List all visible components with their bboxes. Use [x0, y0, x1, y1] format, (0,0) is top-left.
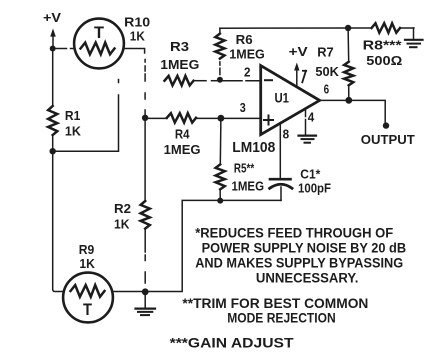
wire R7 top lead from node H [347, 28, 350, 62]
svg-text:R8***: R8*** [363, 38, 403, 53]
svg-text:R5**: R5** [234, 161, 255, 176]
node G junction dot (pin2 net) [217, 77, 223, 83]
wire node A to thermistor R10 left terminal [53, 48, 67, 50]
svg-text:8: 8 [283, 126, 290, 141]
svg-text:1K: 1K [79, 256, 95, 271]
output terminal dot [383, 122, 389, 128]
wire R7 bottom lead to node I [348, 85, 350, 100]
svg-text:R1: R1 [65, 108, 80, 123]
node H junction dot (top rail / R7 / R8) [345, 25, 351, 31]
resistor R8 [372, 23, 401, 32]
node B junction dot (pin3 net / R10 / R2 / R4) [142, 115, 148, 121]
wire top rail from R6 top [220, 27, 348, 29]
svg-text:R6: R6 [236, 32, 253, 47]
svg-text:1K: 1K [114, 217, 130, 232]
node A junction dot (+V rail / R1 / R10) [50, 46, 56, 52]
resistor R7 [344, 62, 353, 86]
svg-text:POWER SUPPLY NOISE BY 20 dB: POWER SUPPLY NOISE BY 20 dB [202, 241, 407, 256]
svg-text:2: 2 [244, 65, 251, 80]
svg-text:6: 6 [324, 82, 330, 97]
resistor R6 [215, 34, 224, 59]
svg-text:1K: 1K [65, 124, 82, 139]
node D junction dot (ground node) [142, 288, 149, 295]
svg-text:1MEG: 1MEG [229, 47, 264, 62]
wire node A down to R1 [52, 49, 54, 107]
resistor R3 [165, 76, 194, 86]
capacitor C1 [270, 179, 292, 200]
wire R6 bottom (faded dashes) to node G [219, 62, 221, 75]
wire R6 top lead [219, 28, 221, 33]
svg-text:100pF: 100pF [298, 181, 331, 196]
svg-text:*REDUCES FEED THROUGH OF: *REDUCES FEED THROUGH OF [195, 226, 393, 241]
svg-text:U1: U1 [275, 90, 290, 106]
op-amp U1 triangle [261, 66, 320, 135]
pin number 7 (slash) [302, 71, 306, 83]
wire R9 right terminal to node D [114, 291, 146, 293]
wire R2 top lead from node B [144, 118, 146, 201]
resistor R4 [167, 113, 196, 122]
svg-text:R9: R9 [79, 242, 95, 257]
wire output net from op-amp apex [320, 100, 386, 122]
resistor R1 [48, 106, 57, 135]
svg-text:4: 4 [308, 109, 315, 124]
wire (faded dashes) corner down to node B [144, 60, 146, 115]
op-amp non-inverting input plus sign [264, 116, 273, 125]
pin 4 stub wire [305, 109, 307, 117]
svg-text:AND MAKES SUPPLY BYPASSING: AND MAKES SUPPLY BYPASSING [195, 256, 403, 271]
svg-text:T: T [94, 24, 104, 42]
svg-text:1MEG: 1MEG [160, 57, 199, 72]
resistor R5 [216, 164, 225, 189]
svg-text:R4: R4 [175, 126, 190, 141]
node E junction dot [217, 198, 223, 204]
wire node C down left column to R9 [53, 151, 63, 291]
resistor R2 [141, 201, 150, 229]
svg-text:R7: R7 [317, 44, 334, 59]
svg-text:MODE REJECTION: MODE REJECTION [227, 310, 336, 325]
svg-text:+V: +V [43, 10, 61, 25]
svg-text:LM108: LM108 [232, 140, 275, 156]
svg-text:1MEG: 1MEG [232, 179, 265, 194]
svg-text:***GAIN ADJUST: ***GAIN ADJUST [170, 336, 295, 351]
thermistor R10 (circle with T and zigzag) [74, 19, 124, 69]
ground symbol G1 [136, 292, 156, 315]
node C junction dot [50, 148, 56, 154]
pin 8 stub wire [279, 123, 281, 178]
wire R1 bottom to node C [52, 135, 54, 151]
svg-text:+V: +V [289, 44, 308, 59]
svg-text:3: 3 [240, 100, 246, 115]
+V supply symbol (left) [50, 29, 56, 49]
wire bottom net: node D up-and-over to R5/C1 bottom [145, 200, 281, 291]
node I junction dot [345, 97, 352, 104]
ground symbol G2 (top right) [405, 28, 423, 47]
svg-text:R10: R10 [124, 15, 150, 30]
wire R8 right lead [400, 27, 414, 29]
wire R2 bottom (faded dashes) to node D [144, 229, 146, 283]
svg-text:R3: R3 [170, 39, 189, 54]
wire L-shaped from node C up toward R10 bottom [53, 80, 119, 152]
thermistor R9 (circle with zigzag and T) [63, 273, 113, 323]
node F junction dot [218, 115, 225, 122]
svg-text:1MEG: 1MEG [164, 142, 201, 157]
wire R5 bottom lead to node E [219, 189, 221, 200]
wire pin2 net: node G to op-amp [223, 80, 261, 82]
+V supply arrow at pin 7 [294, 63, 299, 86]
svg-text:T: T [83, 301, 92, 319]
wire R3 right lead to node G [194, 80, 217, 82]
wire R4 right to node F and op-amp pin 3 [196, 117, 261, 119]
svg-text:R2: R2 [114, 201, 131, 216]
svg-text:1K: 1K [130, 29, 146, 44]
svg-text:C1*: C1* [300, 167, 321, 182]
svg-text:500Ω: 500Ω [366, 53, 402, 68]
wire R10 right terminal to corner [124, 49, 145, 54]
svg-text:UNNECESSARY.: UNNECESSARY. [256, 270, 359, 285]
ground symbol G3 (pin 4) [299, 136, 317, 143]
svg-text:OUTPUT: OUTPUT [361, 132, 415, 147]
svg-text:**TRIM FOR BEST COMMON: **TRIM FOR BEST COMMON [182, 296, 368, 311]
wire pin3 net: node B to R4 [145, 117, 167, 119]
op-amp inverting input minus sign [265, 79, 272, 81]
wire R5 top lead from node F [219, 118, 222, 164]
wire top rail to R8 [348, 27, 371, 29]
svg-text:50K: 50K [315, 64, 339, 79]
